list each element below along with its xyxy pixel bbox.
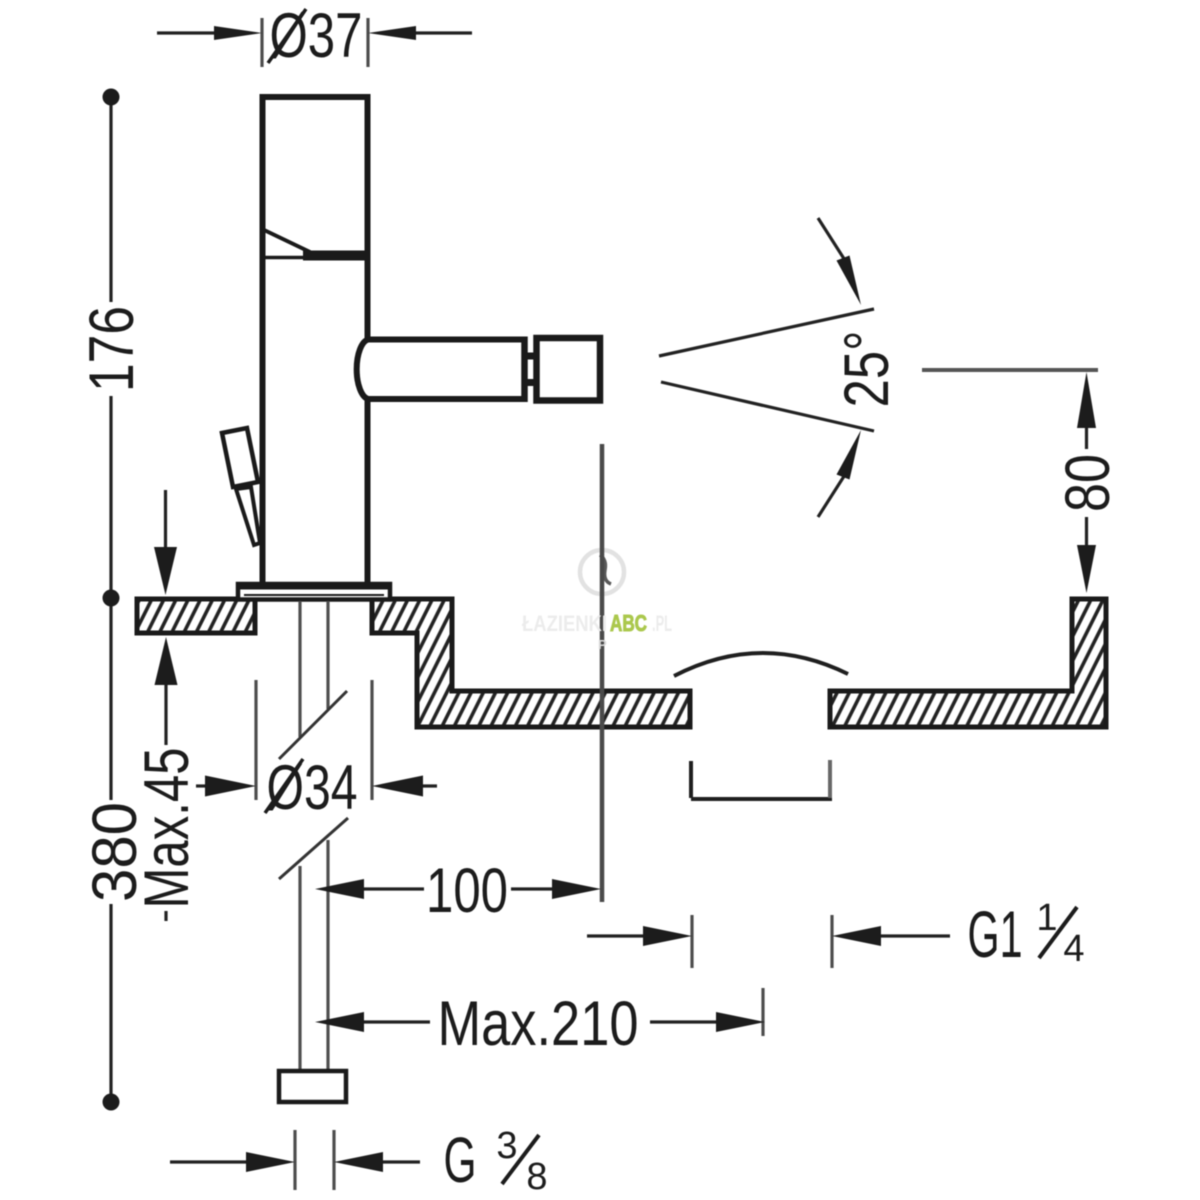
svg-text:Max.210: Max.210 xyxy=(438,989,639,1059)
svg-text:Ø37: Ø37 xyxy=(270,1,363,71)
svg-text:Max.45: Max.45 xyxy=(132,748,202,909)
svg-text:Ø34: Ø34 xyxy=(267,753,358,823)
svg-text:1: 1 xyxy=(1036,897,1057,939)
svg-text:ABC: ABC xyxy=(610,610,647,636)
svg-text:.PL: .PL xyxy=(652,611,672,636)
svg-text:80: 80 xyxy=(1053,454,1123,512)
svg-text:25°: 25° xyxy=(832,331,902,408)
svg-text:3: 3 xyxy=(496,1125,517,1167)
svg-text:176: 176 xyxy=(77,306,147,392)
svg-text:G1: G1 xyxy=(968,897,1023,971)
svg-text:100: 100 xyxy=(426,856,508,926)
svg-text:4: 4 xyxy=(1063,928,1084,970)
svg-text:P: P xyxy=(598,637,607,652)
svg-text:G: G xyxy=(444,1124,477,1196)
svg-text:8: 8 xyxy=(526,1156,547,1198)
svg-text:ŁAZIENKI: ŁAZIENKI xyxy=(522,611,607,636)
